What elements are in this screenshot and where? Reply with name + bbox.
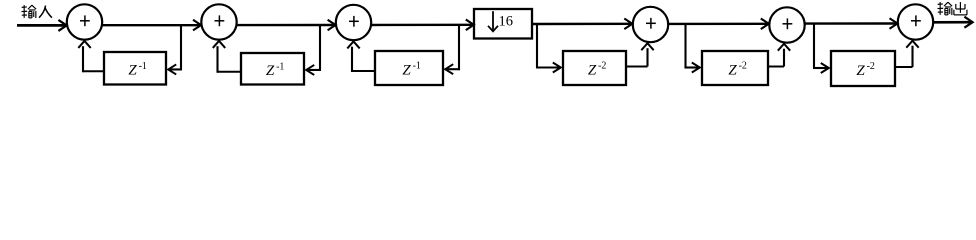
svg-text:Z: Z (856, 63, 865, 79)
svg-text:Z: Z (266, 63, 275, 79)
svg-text:Z: Z (128, 63, 137, 79)
svg-text:-2: -2 (598, 61, 606, 72)
svg-text:-1: -1 (413, 61, 421, 72)
svg-text:-2: -2 (867, 61, 875, 72)
svg-text:-1: -1 (139, 61, 147, 72)
svg-text:-1: -1 (276, 61, 284, 72)
svg-text:-2: -2 (739, 61, 747, 72)
svg-text:16: 16 (499, 14, 514, 30)
svg-text:Z: Z (728, 62, 737, 78)
svg-text:Z: Z (402, 62, 411, 78)
svg-text:Z: Z (588, 62, 597, 78)
